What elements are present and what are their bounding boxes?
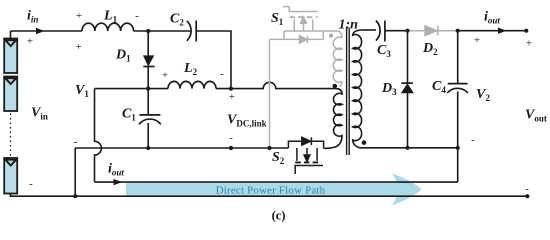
node dot C4 bottom: [456, 146, 460, 150]
node dot D1/L2: [146, 87, 150, 91]
svg-text:+: +: [229, 91, 235, 103]
PV string Vin: [4, 31, 17, 194]
wire: i_out return along band top: [95, 181, 458, 183]
svg-text:1:n: 1:n: [339, 18, 359, 33]
S2 wire to transformer: [324, 147, 326, 149]
wire: C4 corner down to return wire: [457, 148, 459, 182]
node dot C2/L2/VDC: [229, 87, 233, 91]
primary upper winding (gray): [333, 37, 342, 86]
S2 mosfet body: [297, 148, 317, 161]
node dot D3 top: [405, 29, 409, 33]
svg-text:+: +: [474, 34, 480, 46]
wire: L2 to transformer with hop over S1 leg: [216, 82, 337, 88]
arrow i_out (bottom): [114, 179, 123, 185]
arrow i_in: [36, 28, 45, 34]
PV cell 1: [4, 39, 17, 74]
terminal dot output minus: [525, 194, 529, 198]
diode D1: [143, 31, 154, 115]
wire: V1 node horizontal to L2: [95, 88, 169, 90]
svg-text:+: +: [76, 10, 82, 22]
black polarity dot secondary: [362, 140, 367, 145]
wire: left drop to bottom rail: [74, 148, 76, 196]
svg-text:-: -: [29, 178, 33, 190]
S1 mosfet body: [294, 20, 313, 32]
node dot bottom rail left: [73, 194, 77, 198]
node dot D3 bottom: [405, 146, 409, 150]
switch S1 (inactive, gray): [270, 7, 343, 148]
svg-text:+: +: [526, 37, 532, 49]
node dot VDC minus: [229, 146, 233, 150]
inductor L2: [168, 81, 216, 88]
svg-text:+: +: [162, 69, 168, 81]
diode D3: [401, 31, 413, 148]
svg-text:-: -: [135, 10, 139, 22]
node dot C1 bottom: [146, 146, 150, 150]
S2 bypass path with body diode: [288, 141, 323, 148]
gray polarity dot: [329, 34, 333, 38]
svg-text:-: -: [220, 68, 224, 80]
switch S2 with body diode: [288, 137, 326, 174]
node dot S1 leg bottom: [267, 146, 271, 150]
capacitor C1: [139, 115, 161, 148]
node dot C4 top: [456, 29, 460, 33]
wire: output top: [458, 30, 527, 32]
wire: top rail left: [11, 30, 83, 32]
svg-text:-: -: [525, 183, 529, 195]
wire: secondary bottom rail: [360, 147, 458, 149]
S1 channel wire: [284, 31, 342, 38]
node dot L1/D1/C2: [146, 29, 150, 33]
svg-text:+: +: [27, 35, 33, 47]
svg-text:-: -: [471, 134, 475, 146]
terminal dot output plus: [524, 29, 528, 33]
wire: secondary top to C3: [362, 29, 376, 31]
transformer T (1:n): [324, 28, 367, 156]
wire: C2 to VDC node (corner down): [196, 31, 231, 89]
direct power flow path band: [126, 174, 422, 206]
arrow i_out (top): [498, 28, 507, 34]
svg-text:-: -: [229, 132, 233, 144]
PV cell 2: [4, 77, 17, 112]
S1 bypass path with body diode: [270, 31, 324, 39]
diode D2 (inactive, gray): [408, 26, 458, 36]
capacitor C4: [447, 31, 468, 148]
svg-text:(c): (c): [272, 209, 286, 223]
primary lower winding (black): [324, 89, 342, 149]
S1 left leg down to bottom: [269, 39, 271, 148]
inductor L1: [82, 23, 134, 31]
svg-text:Direct Power Flow Path: Direct Power Flow Path: [216, 185, 326, 197]
core: [347, 28, 350, 156]
svg-text:+: +: [75, 41, 81, 53]
black polarity dot primary: [333, 84, 338, 89]
PV cell 3: [4, 158, 17, 194]
capacitor C2: [187, 21, 196, 42]
svg-text:-: -: [74, 136, 78, 148]
wire: L1 to C2: [134, 30, 191, 32]
dotted line: [10, 114, 12, 157]
wire PV top to rail: [10, 31, 12, 39]
wire: mid bottom rail: [75, 147, 288, 149]
wire: C3 to D3 node: [385, 30, 408, 32]
secondary winding: [353, 30, 362, 148]
capacitor C3: [376, 21, 385, 42]
wire: V1 vertical with hop over return wire: [95, 89, 102, 183]
wire: bottom rail: [11, 194, 528, 197]
